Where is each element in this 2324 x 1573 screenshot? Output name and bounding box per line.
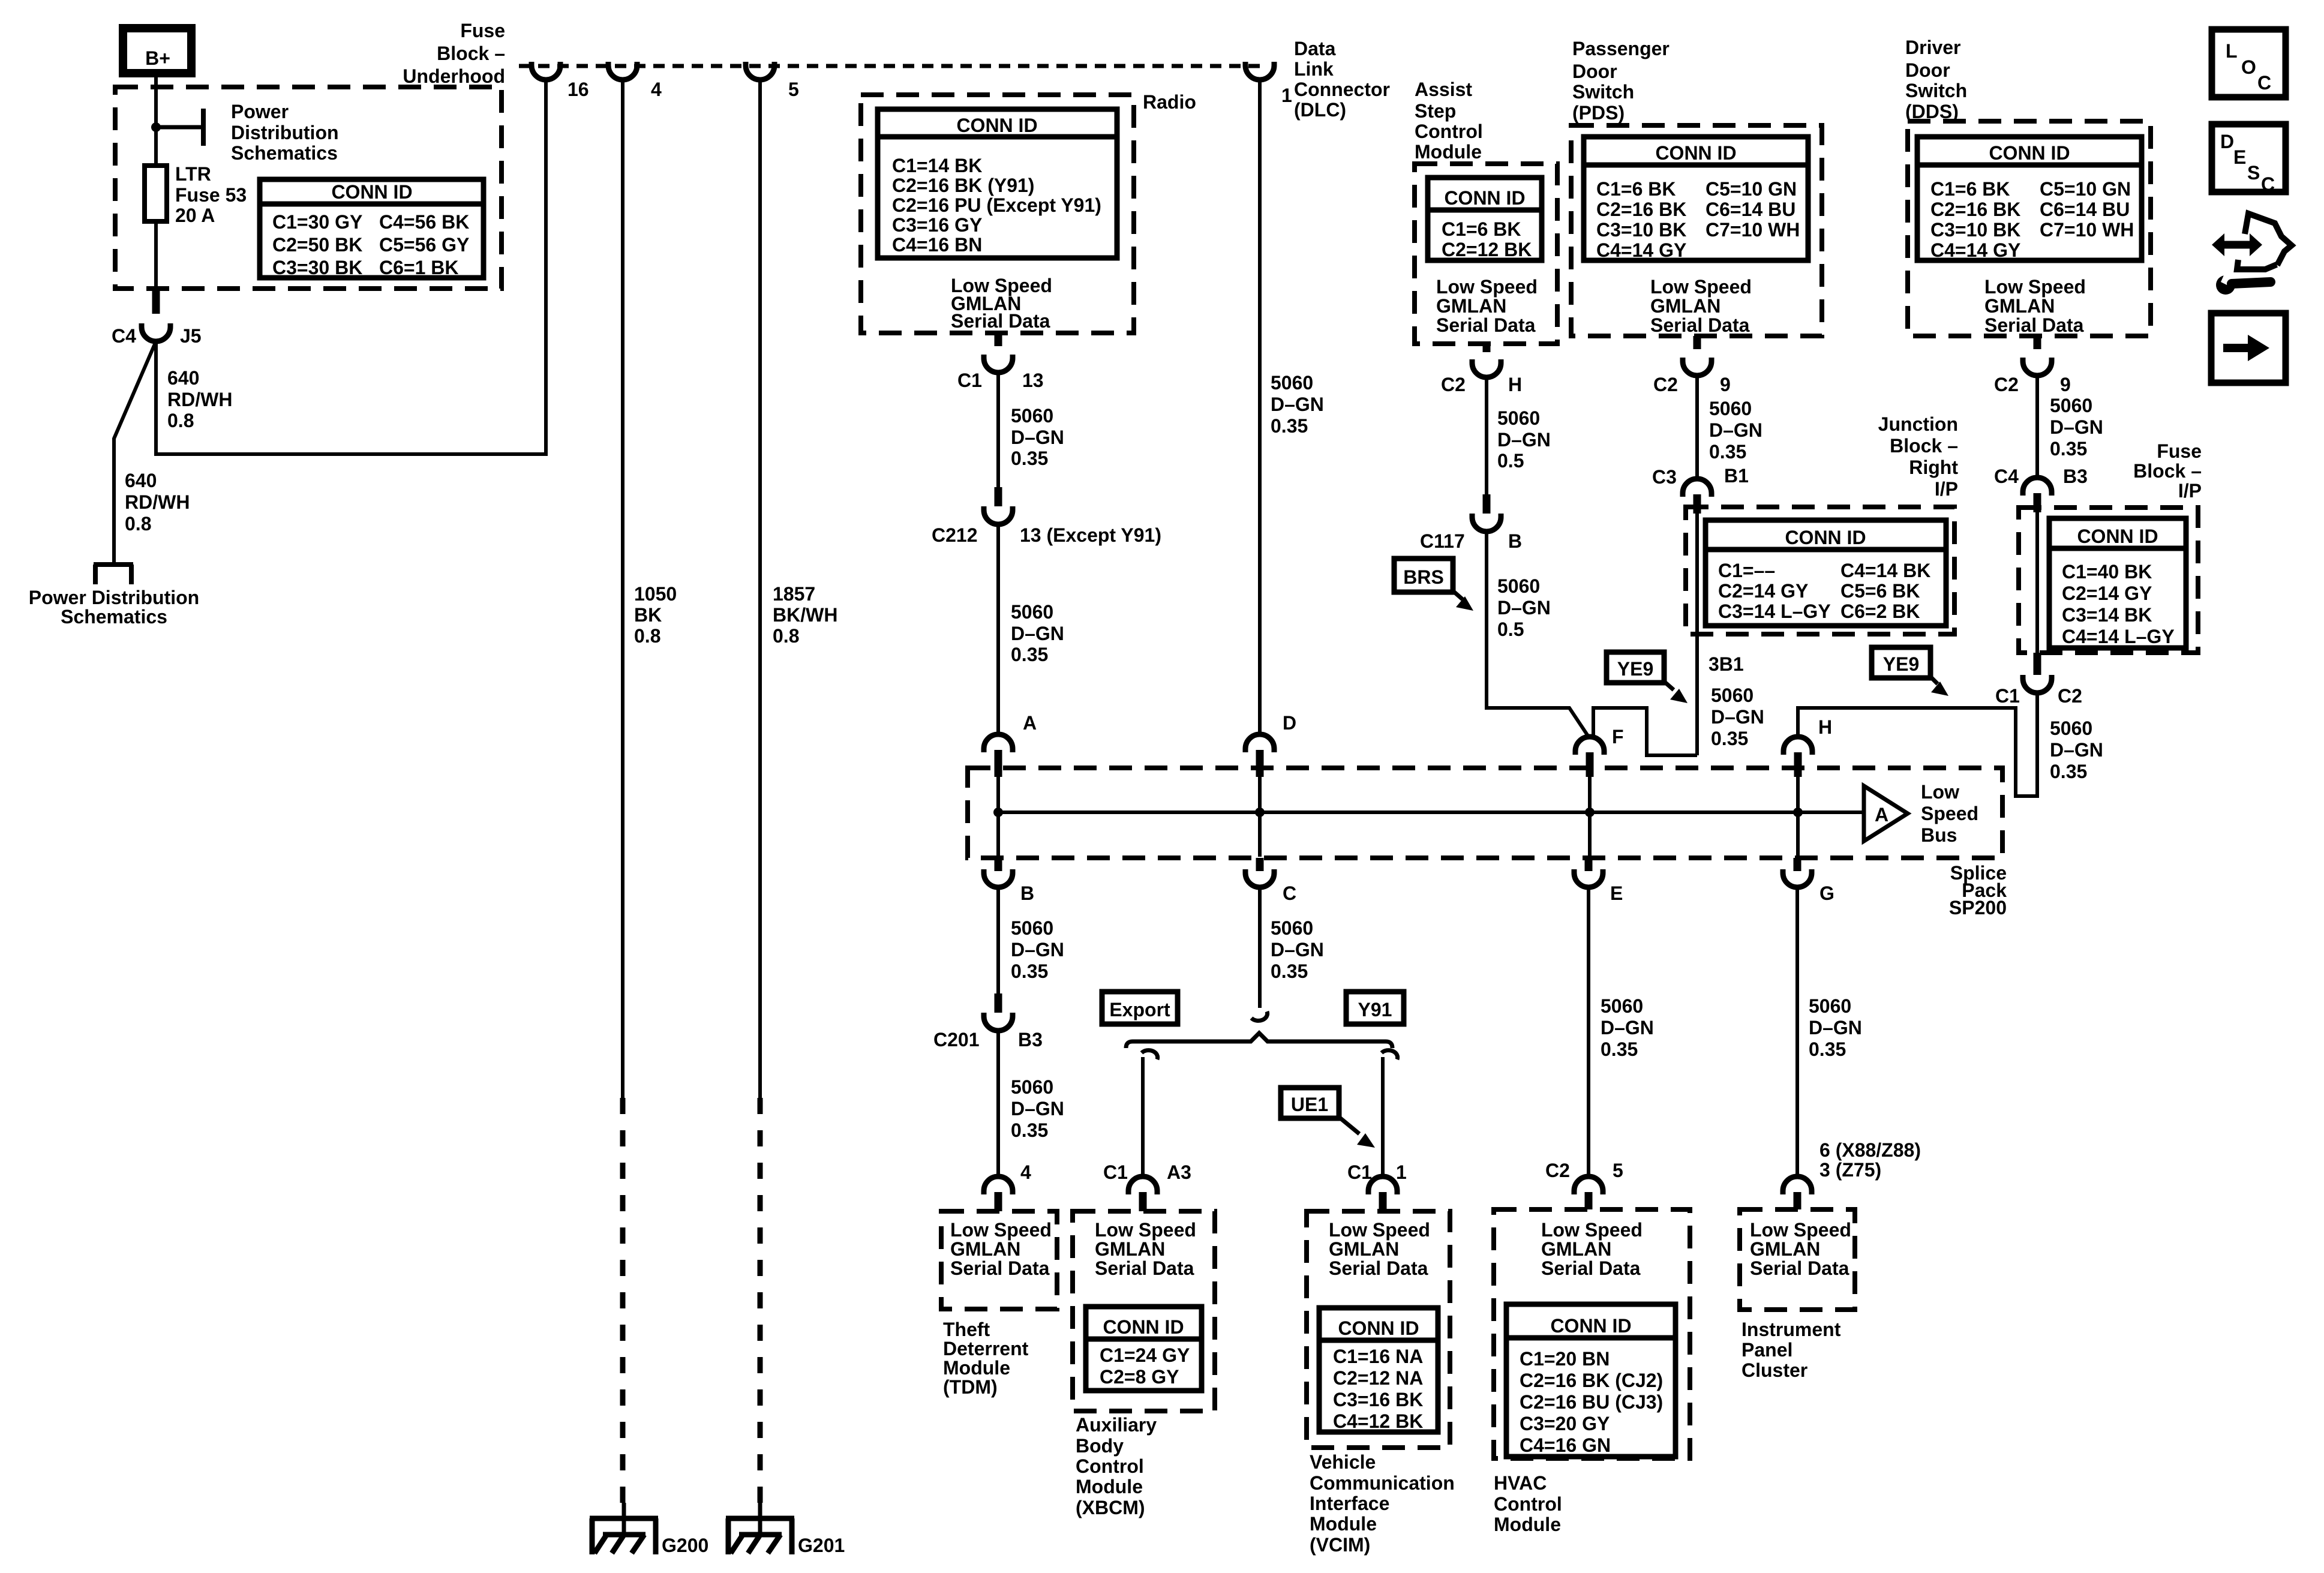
wire G to IPC [1795, 887, 1799, 1176]
connector D into splice pack [1245, 734, 1274, 777]
svg-text:(VCIM): (VCIM) [1310, 1534, 1370, 1556]
arrow from YE9 right [1930, 677, 1948, 696]
svg-text:C2=12 BK: C2=12 BK [1442, 239, 1532, 260]
svg-text:0.8: 0.8 [125, 513, 151, 535]
svg-text:1: 1 [1396, 1161, 1407, 1183]
wire C4 down right and up to DLC pin 16 [156, 80, 546, 454]
wire A to bus [996, 777, 1000, 857]
label Assist Step Control Module [1415, 79, 1483, 163]
svg-text:G: G [1819, 882, 1834, 904]
svg-text:L: L [2226, 40, 2238, 62]
svg-text:0.35: 0.35 [1271, 415, 1308, 437]
wire label 5060 D-GN 0.35 (radio upper) [1011, 405, 1064, 469]
CONN ID table (ASCM) [1428, 178, 1542, 260]
label Fuse Block - Underhood [403, 20, 505, 87]
svg-text:D–GN: D–GN [1709, 419, 1762, 441]
wire label 5060 D-GN 0.35 (C) [1271, 917, 1324, 982]
label Splice Pack SP200 [1949, 862, 2007, 918]
svg-text:Block –: Block – [2133, 460, 2202, 482]
connector F into splice pack [1575, 737, 1604, 777]
wire label 5060 D-GN 0.35 (PDS) [1709, 398, 1762, 463]
wire E to HVAC [1587, 887, 1590, 1176]
svg-text:Block –: Block – [437, 43, 505, 64]
svg-text:C3=20 GY: C3=20 GY [1520, 1413, 1610, 1434]
connector C4/J5 [142, 289, 170, 341]
svg-text:Door: Door [1905, 59, 1950, 81]
svg-text:D–GN: D–GN [1271, 394, 1324, 415]
svg-text:Passenger: Passenger [1572, 38, 1670, 59]
svg-text:Module: Module [943, 1357, 1010, 1379]
arrow from BRS [1453, 591, 1473, 611]
svg-text:0.35: 0.35 [2050, 438, 2087, 460]
svg-text:C3=14 BK: C3=14 BK [2062, 604, 2152, 626]
svg-text:Fuse: Fuse [2157, 440, 2202, 462]
wire D to bus [1258, 777, 1262, 857]
svg-text:BRS: BRS [1403, 566, 1444, 588]
arrow from YE9 left [1664, 682, 1688, 703]
svg-text:C1=6 BK: C1=6 BK [1442, 218, 1521, 240]
svg-text:3 (Z75): 3 (Z75) [1819, 1159, 1881, 1181]
node junction dot on B+ feed [151, 122, 161, 132]
svg-text:Serial Data: Serial Data [1750, 1257, 1849, 1279]
label Low Speed GMLAN Serial Data (ASCM) [1436, 276, 1538, 336]
connector C2/9 (PDS) [1683, 336, 1712, 376]
wire H to bus [1796, 777, 1800, 857]
svg-text:Speed: Speed [1921, 803, 1978, 824]
option label YE9 (right) [1872, 647, 1930, 678]
svg-text:GMLAN: GMLAN [1329, 1238, 1399, 1260]
svg-text:Communication: Communication [1310, 1472, 1455, 1494]
svg-text:D–GN: D–GN [1011, 1098, 1064, 1119]
in-line connector C212 [984, 487, 1013, 524]
wire radio to C212 [996, 373, 1000, 487]
svg-text:J5: J5 [180, 325, 202, 347]
wire through junction block down [1695, 514, 1699, 755]
svg-text:D–GN: D–GN [1271, 939, 1324, 960]
svg-text:5060: 5060 [1011, 1076, 1053, 1098]
Instrument Panel Cluster dashed box [1740, 1209, 1855, 1310]
off-page bracket to Power Distribution Schematics [94, 565, 133, 584]
label Low Speed GMLAN Serial Data (PDS) [1650, 276, 1752, 336]
Theft Deterrent Module dashed box [941, 1211, 1057, 1309]
svg-text:C2: C2 [1653, 374, 1678, 395]
svg-text:GMLAN: GMLAN [1650, 295, 1721, 317]
svg-text:5: 5 [1613, 1160, 1623, 1181]
svg-text:D–GN: D–GN [1497, 597, 1551, 619]
svg-text:Cluster: Cluster [1742, 1359, 1807, 1381]
svg-text:0.35: 0.35 [1011, 448, 1048, 469]
wire DLC pin 5 dashed lower part [758, 1098, 763, 1512]
svg-text:Serial Data: Serial Data [1650, 314, 1750, 336]
svg-text:Low Speed: Low Speed [1750, 1219, 1851, 1241]
svg-text:C2: C2 [1441, 374, 1466, 395]
svg-text:H: H [1508, 374, 1522, 395]
svg-text:CONN ID: CONN ID [1550, 1315, 1631, 1337]
svg-text:C3=16 BK: C3=16 BK [1333, 1389, 1423, 1410]
label HVAC Control Module [1494, 1472, 1562, 1535]
svg-text:D–GN: D–GN [1497, 429, 1551, 451]
svg-text:Power: Power [231, 101, 289, 122]
svg-text:C1=20 BN: C1=20 BN [1520, 1348, 1610, 1370]
svg-text:Assist: Assist [1415, 79, 1472, 100]
svg-text:A3: A3 [1167, 1161, 1191, 1183]
svg-text:Radio: Radio [1143, 91, 1196, 113]
wire ASCM to C117 [1485, 377, 1488, 494]
connector C2/H (ASCM) [1472, 344, 1501, 377]
CONN ID table (Radio) [878, 109, 1117, 258]
node splice F dot [1585, 807, 1595, 817]
wire label 1050 BK 0.8 [634, 583, 677, 647]
svg-text:D: D [2220, 131, 2234, 152]
svg-text:Switch: Switch [1905, 80, 1967, 101]
svg-text:C1=––: C1=–– [1718, 560, 1775, 581]
wire C2 down and around to splice H [1798, 693, 2037, 796]
label LTR Fuse 53 20 A [175, 163, 247, 226]
svg-text:C7=10 WH: C7=10 WH [1706, 219, 1800, 241]
wire end hook (C) [1251, 1011, 1268, 1020]
svg-text:GMLAN: GMLAN [950, 1238, 1020, 1260]
svg-text:YE9: YE9 [1883, 653, 1919, 675]
svg-text:Bus: Bus [1921, 824, 1957, 846]
svg-text:D–GN: D–GN [1011, 623, 1064, 644]
wire Export branch to XBCM [1141, 1057, 1145, 1176]
label Driver Door Switch (DDS) [1905, 37, 1967, 122]
CONN ID table (Fuse Block Underhood) [260, 179, 484, 278]
svg-text:5060: 5060 [1271, 917, 1313, 939]
svg-text:C2=8 GY: C2=8 GY [1100, 1366, 1179, 1388]
svg-text:6 (X88/Z88): 6 (X88/Z88) [1819, 1139, 1921, 1161]
svg-text:CONN ID: CONN ID [331, 181, 412, 203]
svg-text:C201: C201 [933, 1029, 980, 1050]
label Low Speed GMLAN Serial Data (VCIM) [1329, 1219, 1430, 1279]
svg-text:C6=1 BK: C6=1 BK [379, 257, 459, 278]
ground G200 [590, 1503, 658, 1554]
connector B below splice pack [984, 858, 1013, 887]
svg-text:D–GN: D–GN [1601, 1017, 1654, 1038]
svg-text:LTR: LTR [175, 163, 211, 185]
svg-text:5060: 5060 [1497, 575, 1540, 597]
label Data Link Connector (DLC) [1294, 38, 1390, 121]
svg-text:Low Speed: Low Speed [1984, 276, 2086, 298]
svg-text:0.8: 0.8 [773, 625, 799, 647]
DLC pin 16 connector [532, 62, 560, 80]
svg-text:SP200: SP200 [1949, 897, 2007, 918]
svg-text:C1: C1 [1995, 685, 2020, 707]
connector A into splice pack [984, 734, 1013, 777]
svg-text:Serial Data: Serial Data [1436, 314, 1536, 336]
svg-text:Control: Control [1494, 1493, 1562, 1515]
wire label 5060 D-GN 0.35 (B upper) [1011, 917, 1064, 982]
connector C2/9 (DDS) [2023, 336, 2052, 376]
svg-text:5060: 5060 [1709, 398, 1752, 419]
svg-text:C1: C1 [957, 370, 982, 391]
svg-text:(TDM): (TDM) [943, 1376, 998, 1398]
wire label 5060 D-GN 0.5 (upper) [1497, 407, 1551, 472]
svg-text:0.8: 0.8 [167, 410, 194, 431]
svg-text:Low: Low [1921, 781, 1959, 803]
svg-text:0.35: 0.35 [1011, 960, 1048, 982]
svg-text:C4=16 BN: C4=16 BN [892, 234, 982, 256]
svg-text:0.35: 0.35 [2050, 761, 2087, 782]
svg-text:D–GN: D–GN [2050, 416, 2103, 438]
label Low Speed GMLAN Serial Data (IPC) [1750, 1219, 1851, 1279]
svg-text:C1: C1 [1347, 1161, 1372, 1183]
svg-text:Theft: Theft [943, 1319, 990, 1340]
CONN ID table (DDS) [1917, 137, 2142, 261]
Fuse Block - Underhood dashed box [115, 87, 502, 289]
wire C201 to TDM [996, 1031, 1000, 1176]
svg-text:C6=14 BU: C6=14 BU [2040, 199, 2130, 220]
svg-text:Driver: Driver [1905, 37, 1961, 58]
svg-text:5060: 5060 [1809, 995, 1851, 1017]
in-line connector C117 [1472, 494, 1501, 532]
svg-text:20 A: 20 A [175, 205, 215, 226]
Driver Door Switch dashed box [1908, 121, 2151, 336]
svg-text:CONN ID: CONN ID [1338, 1317, 1419, 1339]
svg-text:B+: B+ [145, 47, 170, 69]
svg-text:1857: 1857 [773, 583, 815, 605]
svg-text:E: E [1610, 882, 1623, 904]
svg-text:E: E [2233, 146, 2246, 168]
connector C4/B3 into fuse block I/P [2023, 478, 2052, 512]
svg-text:0.35: 0.35 [1011, 1119, 1048, 1141]
svg-text:0.35: 0.35 [1709, 441, 1746, 463]
svg-text:GMLAN: GMLAN [1541, 1238, 1611, 1260]
svg-text:GMLAN: GMLAN [1436, 295, 1506, 317]
svg-text:C5=6 BK: C5=6 BK [1840, 580, 1920, 602]
CONN ID table (Fuse Block I/P) [2049, 518, 2186, 648]
svg-text:B1: B1 [1724, 465, 1749, 487]
svg-text:Fuse 53: Fuse 53 [175, 184, 247, 206]
label Fuse Block - I/P [2133, 440, 2202, 502]
svg-text:C7=10 WH: C7=10 WH [2040, 219, 2134, 241]
connector G below splice pack [1783, 858, 1812, 887]
svg-text:C1=14 BK: C1=14 BK [892, 155, 982, 176]
label Power Distribution Schematics (bottom) [29, 587, 199, 628]
wire Y91 branch to VCIM [1381, 1057, 1385, 1176]
svg-text:I/P: I/P [1935, 478, 1958, 500]
svg-text:0.5: 0.5 [1497, 619, 1524, 640]
CONN ID table (HVAC) [1506, 1304, 1676, 1457]
svg-text:B: B [1508, 530, 1522, 552]
svg-text:Underhood: Underhood [403, 65, 505, 87]
svg-text:YE9: YE9 [1617, 658, 1653, 680]
CONN ID table (VCIM) [1319, 1308, 1438, 1432]
svg-text:Right: Right [1909, 457, 1958, 478]
svg-text:C2=16 BU (CJ3): C2=16 BU (CJ3) [1520, 1391, 1663, 1413]
wire label 5060 D-GN 0.35 (to H) [2050, 718, 2103, 782]
svg-text:D: D [1283, 712, 1296, 734]
svg-text:Distribution: Distribution [231, 122, 339, 143]
svg-text:H: H [1818, 716, 1832, 738]
ground G201 [726, 1503, 794, 1554]
low speed bus triangle A [1864, 786, 1908, 841]
svg-text:Step: Step [1415, 100, 1456, 122]
wire label 5060 D-GN 0.5 (lower) [1497, 575, 1551, 640]
svg-text:C117: C117 [1420, 530, 1465, 552]
svg-text:C4=14 BK: C4=14 BK [1840, 560, 1930, 581]
svg-text:Control: Control [1076, 1455, 1144, 1477]
options brace [1126, 1033, 1392, 1048]
svg-text:9: 9 [1720, 374, 1731, 395]
svg-text:1: 1 [1281, 85, 1292, 106]
svg-text:Low Speed: Low Speed [1436, 276, 1538, 298]
wire label 5060 D-GN 0.35 (3B1) [1711, 685, 1764, 749]
wire label 5060 D-GN 0.35 (DDS) [2050, 395, 2103, 460]
svg-text:Serial Data: Serial Data [1984, 314, 2084, 336]
svg-text:Low Speed: Low Speed [1541, 1219, 1643, 1241]
svg-text:C4=14 GY: C4=14 GY [1596, 239, 1686, 261]
wire label 640 RD/WH 0.8 (upper) [167, 367, 232, 431]
svg-text:Door: Door [1572, 61, 1617, 82]
svg-text:(PDS): (PDS) [1572, 102, 1625, 124]
option label BRS [1394, 559, 1453, 592]
svg-text:D–GN: D–GN [1011, 939, 1064, 960]
connector C2/5 into HVAC [1574, 1176, 1603, 1209]
icon DESC box [2212, 124, 2286, 195]
CONN ID table (PDS) [1584, 137, 1808, 261]
svg-text:C1: C1 [1103, 1161, 1128, 1183]
wire DLC pin 5 to ground (solid part) [758, 80, 762, 1098]
svg-text:Schematics: Schematics [231, 142, 338, 164]
wire junction block to splice F [1593, 708, 1697, 755]
Fuse Block - I/P dashed box [2019, 508, 2198, 653]
svg-text:C4=14 GY: C4=14 GY [1930, 239, 2020, 261]
node splice D dot [1255, 807, 1265, 817]
svg-text:0.35: 0.35 [1809, 1038, 1846, 1060]
svg-text:5060: 5060 [1711, 685, 1753, 706]
wire B to C201 [996, 887, 1000, 993]
wire C to options brace [1258, 887, 1262, 1008]
svg-text:5060: 5060 [1601, 995, 1643, 1017]
svg-text:9: 9 [2060, 374, 2071, 395]
Splice Pack SP200 dashed box [968, 768, 2002, 858]
svg-text:Panel: Panel [1742, 1339, 1792, 1361]
Vehicle Communication Interface Module dashed box [1307, 1211, 1450, 1448]
label Power Distribution Schematics (in fuse block) [231, 101, 339, 164]
HVAC Control Module dashed box [1494, 1209, 1690, 1458]
svg-text:C1=24 GY: C1=24 GY [1100, 1344, 1190, 1366]
svg-text:C2=16 BK (Y91): C2=16 BK (Y91) [892, 175, 1034, 196]
label Auxiliary Body Control Module (XBCM) [1076, 1414, 1157, 1518]
svg-text:UE1: UE1 [1291, 1094, 1328, 1115]
option label YE9 (left) [1607, 652, 1664, 683]
label Low Speed GMLAN Serial Data (HVAC) [1541, 1219, 1643, 1279]
icon wrench [2216, 271, 2271, 295]
svg-text:G200: G200 [662, 1535, 708, 1556]
icon LOC box [2212, 29, 2286, 97]
svg-text:Serial Data: Serial Data [951, 310, 1050, 332]
arrow from UE1 [1339, 1117, 1375, 1148]
svg-text:C2: C2 [2058, 685, 2082, 707]
svg-text:C3=16 GY: C3=16 GY [892, 214, 982, 236]
svg-text:CONN ID: CONN ID [1785, 527, 1866, 548]
svg-text:Fuse: Fuse [460, 20, 505, 41]
svg-text:Instrument: Instrument [1742, 1319, 1841, 1340]
svg-text:C2: C2 [1994, 374, 2019, 395]
wire diagonal to power distribution schematics [114, 341, 156, 565]
svg-text:3B1: 3B1 [1709, 653, 1744, 675]
svg-text:5060: 5060 [1011, 405, 1053, 427]
label Vehicle Communication Interface Module (VCIM) [1310, 1451, 1455, 1556]
svg-text:Deterrent: Deterrent [943, 1338, 1029, 1359]
svg-text:4: 4 [1020, 1161, 1031, 1183]
wire label 640 RD/WH 0.8 (lower) [125, 470, 190, 535]
svg-text:C4=16 GN: C4=16 GN [1520, 1434, 1611, 1456]
svg-text:0.35: 0.35 [1011, 644, 1048, 665]
wire label 1857 BK/WH 0.8 [773, 583, 837, 647]
connector C3/B1 into junction block [1683, 479, 1712, 514]
svg-text:A: A [1023, 712, 1037, 734]
label Low Speed GMLAN Serial Data (DDS) [1984, 276, 2086, 336]
label Instrument Panel Cluster [1742, 1319, 1841, 1381]
svg-text:Low Speed: Low Speed [950, 1219, 1052, 1241]
icon vehicle data exchange [2212, 214, 2292, 269]
svg-text:Serial Data: Serial Data [1541, 1257, 1641, 1279]
svg-text:C4: C4 [1994, 466, 2019, 487]
svg-text:B3: B3 [1018, 1029, 1043, 1050]
svg-text:CONN ID: CONN ID [1103, 1316, 1184, 1338]
svg-text:C2=16 BK: C2=16 BK [1930, 199, 2020, 220]
svg-text:HVAC: HVAC [1494, 1472, 1547, 1494]
svg-text:GMLAN: GMLAN [1750, 1238, 1820, 1260]
svg-text:B: B [1020, 882, 1034, 904]
label Low Speed GMLAN Serial Data (TDM) [950, 1219, 1052, 1279]
option label UE1 [1281, 1088, 1339, 1118]
wire label 5060 D-GN 0.35 (DLC) [1271, 372, 1324, 437]
svg-text:13 (Except Y91): 13 (Except Y91) [1020, 524, 1161, 546]
label Low Speed GMLAN Serial Data (XBCM) [1095, 1219, 1196, 1279]
svg-text:C: C [2257, 72, 2271, 94]
svg-text:Low Speed: Low Speed [1095, 1219, 1196, 1241]
svg-text:C2=14 GY: C2=14 GY [2062, 583, 2152, 604]
svg-text:0.35: 0.35 [1711, 728, 1748, 749]
svg-text:16: 16 [568, 79, 589, 100]
svg-text:C3=30 BK: C3=30 BK [272, 257, 362, 278]
svg-text:(XBCM): (XBCM) [1076, 1497, 1145, 1518]
svg-text:Switch: Switch [1572, 81, 1634, 103]
wire PDS to junction block [1695, 376, 1699, 480]
svg-text:Block –: Block – [1890, 435, 1958, 457]
svg-text:C2=16 BK (CJ2): C2=16 BK (CJ2) [1520, 1370, 1663, 1391]
svg-text:GMLAN: GMLAN [1095, 1238, 1165, 1260]
wire label 5060 D-GN 0.35 (B lower) [1011, 1076, 1064, 1141]
svg-text:Auxiliary: Auxiliary [1076, 1414, 1157, 1436]
svg-text:0.35: 0.35 [1601, 1038, 1638, 1060]
svg-text:C2: C2 [1545, 1160, 1570, 1181]
svg-text:CONN ID: CONN ID [1989, 142, 2070, 164]
svg-text:A: A [1875, 804, 1888, 825]
wire C117 to splice F [1487, 532, 1589, 737]
svg-text:C: C [1283, 882, 1296, 904]
wire through fuse block I/P [2035, 512, 2039, 653]
hook top of Export branch [1142, 1050, 1158, 1059]
battery symbol B+ [123, 28, 191, 73]
svg-text:C2=16 BK: C2=16 BK [1596, 199, 1686, 220]
svg-text:5: 5 [788, 79, 799, 100]
svg-text:C6=2 BK: C6=2 BK [1840, 601, 1920, 622]
option label Y91 [1346, 992, 1404, 1024]
svg-text:F: F [1612, 726, 1624, 748]
connector into IPC [1783, 1176, 1812, 1209]
wire B+ to fuse [154, 73, 158, 166]
svg-text:4: 4 [651, 79, 662, 100]
svg-text:D–GN: D–GN [1809, 1017, 1862, 1038]
Passenger Door Switch dashed box [1571, 125, 1822, 336]
wire fuse to connector C4 [154, 221, 158, 289]
connector C1/A3 into XBCM [1128, 1176, 1157, 1211]
svg-text:C2=50 BK: C2=50 BK [272, 234, 362, 256]
